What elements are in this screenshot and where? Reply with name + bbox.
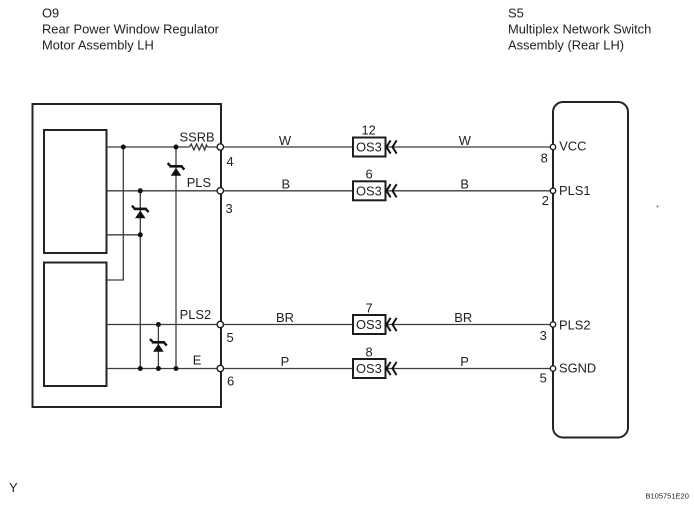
svg-text:7: 7 [366,301,373,316]
svg-text:6: 6 [366,167,373,182]
svg-text:5: 5 [227,330,234,345]
svg-text:P: P [460,354,469,369]
svg-text:8: 8 [366,345,373,360]
svg-text:12: 12 [362,123,376,138]
svg-text:Motor Assembly LH: Motor Assembly LH [42,38,154,53]
svg-text:OS3: OS3 [356,317,382,332]
svg-text:6: 6 [227,374,234,389]
svg-text:VCC: VCC [559,139,586,154]
svg-text:4: 4 [227,154,234,169]
svg-text:S5: S5 [508,6,524,21]
svg-text:PLS: PLS [187,175,211,190]
svg-text:W: W [279,133,292,148]
svg-text:Rear Power Window Regulator: Rear Power Window Regulator [42,22,220,37]
svg-text:3: 3 [226,201,233,216]
svg-text:B105751E20: B105751E20 [646,492,689,501]
svg-text:8: 8 [541,151,548,166]
svg-text:B: B [460,176,469,191]
svg-text:OS3: OS3 [356,184,382,199]
svg-text:OS3: OS3 [356,361,382,376]
svg-text:Assembly (Rear LH): Assembly (Rear LH) [508,38,624,53]
svg-text:PLS2: PLS2 [180,307,212,322]
svg-text:PLS1: PLS1 [559,183,591,198]
svg-text:E: E [193,353,202,368]
svg-text:Multiplex Network Switch: Multiplex Network Switch [508,22,651,37]
svg-text:3: 3 [540,328,547,343]
svg-text:SGND: SGND [559,361,596,376]
svg-text:P: P [281,354,290,369]
svg-text:5: 5 [540,371,547,386]
svg-text:O9: O9 [42,6,59,21]
svg-text:2: 2 [542,193,549,208]
svg-text:SSRB: SSRB [180,130,215,145]
svg-text:OS3: OS3 [356,140,382,155]
svg-text:B: B [282,176,291,191]
svg-text:W: W [459,133,472,148]
svg-text:BR: BR [276,310,294,325]
svg-text:BR: BR [454,310,472,325]
svg-text:Y: Y [9,480,18,495]
svg-text:PLS2: PLS2 [559,318,591,333]
